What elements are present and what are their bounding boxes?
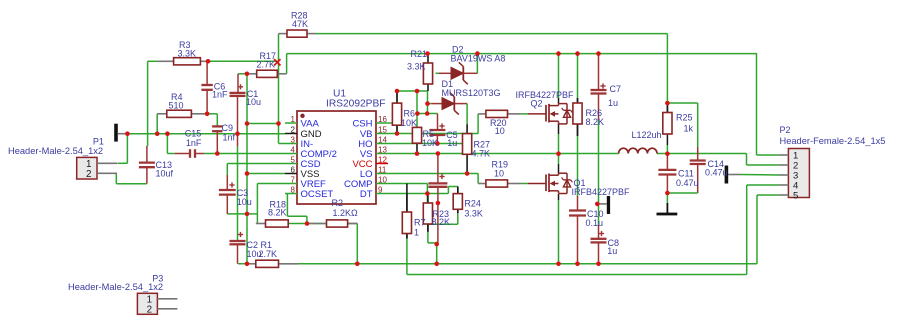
wire C1-C2 column bbox=[237, 146, 239, 241]
wire R24 bottom jog bbox=[457, 209, 459, 213]
svg-text:3.3K: 3.3K bbox=[178, 49, 197, 59]
svg-text:3.3K: 3.3K bbox=[464, 208, 483, 218]
wire C8 bottom lead bbox=[598, 242, 600, 263]
wire Q1 source drop bbox=[558, 194, 560, 200]
svg-text:7: 7 bbox=[291, 175, 296, 184]
svg-text:10uf: 10uf bbox=[156, 169, 174, 179]
svg-text:CSH: CSH bbox=[352, 119, 372, 130]
svg-text:12: 12 bbox=[378, 155, 387, 164]
pin 2 U1 left bbox=[285, 133, 297, 135]
svg-text:2: 2 bbox=[86, 169, 91, 180]
wire Q1 drain riser bbox=[558, 154, 560, 165]
wire CSD row to C3 bbox=[227, 163, 285, 165]
pin 4 U1 left bbox=[285, 153, 297, 155]
svg-text:13: 13 bbox=[378, 145, 387, 154]
wire VB to R20 riser bbox=[477, 114, 479, 134]
svg-text:10: 10 bbox=[494, 169, 504, 179]
svg-text:4: 4 bbox=[291, 145, 296, 154]
wire C3 jog bbox=[227, 213, 247, 215]
transistor Q1 bbox=[545, 175, 547, 192]
wire R26 bottom / C10 col bbox=[577, 124, 579, 136]
wire C1 branch bbox=[238, 73, 247, 75]
svg-text:R25: R25 bbox=[676, 113, 693, 123]
svg-text:0.1u: 0.1u bbox=[586, 218, 604, 228]
svg-text:10u: 10u bbox=[237, 197, 252, 207]
wire R2 right drop bbox=[348, 223, 358, 225]
svg-text:DT: DT bbox=[360, 189, 373, 200]
svg-text:R24: R24 bbox=[464, 199, 481, 209]
capacitor C15 bbox=[189, 149, 191, 158]
svg-text:1nf: 1nf bbox=[223, 133, 236, 143]
wire C4 column bbox=[437, 154, 439, 184]
wire C14 bottom jog bbox=[697, 164, 699, 193]
svg-text:2.7K: 2.7K bbox=[257, 60, 276, 70]
capacitor C6 bbox=[201, 84, 212, 86]
pin 5 U1 left bbox=[285, 163, 297, 165]
wire VREF column bbox=[257, 183, 285, 185]
pin 7 U1 left bbox=[285, 183, 297, 185]
svg-text:3.3K: 3.3K bbox=[407, 61, 426, 71]
svg-text:4.7K: 4.7K bbox=[472, 149, 491, 159]
pin 10 U1 right bbox=[376, 183, 388, 185]
svg-text:8: 8 bbox=[291, 185, 296, 194]
wire R24 top lead bbox=[457, 187, 459, 194]
wire C11 top lead bbox=[666, 154, 668, 170]
capacitor C1 bbox=[230, 92, 246, 94]
pin 15 U1 right bbox=[376, 133, 388, 135]
capacitor C9 bbox=[212, 125, 222, 127]
wire R4 left column bbox=[156, 114, 158, 134]
wire P2 pin1 net bbox=[756, 54, 758, 155]
wire DT jog to R24 bbox=[447, 187, 449, 194]
wire R25 leads bbox=[666, 103, 668, 113]
svg-text:510: 510 bbox=[169, 101, 184, 111]
svg-text:IRFB4227PBF: IRFB4227PBF bbox=[516, 90, 575, 100]
resistor R25 bbox=[666, 103, 668, 113]
wire VB row bbox=[388, 133, 478, 135]
svg-text:0.47u: 0.47u bbox=[676, 178, 699, 188]
pin 8 U1 left bbox=[285, 193, 297, 195]
wire ground stem bbox=[666, 193, 668, 204]
svg-text:10: 10 bbox=[378, 175, 387, 184]
svg-text:L122uh: L122uh bbox=[632, 130, 662, 140]
connector P3 bbox=[137, 293, 157, 314]
probe bar near C14 bbox=[725, 166, 729, 184]
wire R4-C9 branch bbox=[207, 113, 217, 115]
svg-text:10K: 10K bbox=[422, 138, 438, 148]
resistor R3 bbox=[158, 60, 174, 62]
wire R18 right / R2 left bbox=[288, 223, 326, 225]
wire D2 anode stub bbox=[436, 72, 440, 74]
wire COMP row bbox=[388, 183, 424, 185]
wire R6 column bbox=[396, 91, 398, 103]
svg-text:C11: C11 bbox=[678, 169, 694, 179]
svg-text:5: 5 bbox=[793, 191, 798, 202]
svg-text:Header-Male-2.54_1x2: Header-Male-2.54_1x2 bbox=[68, 282, 163, 292]
wire C11 bottom lead bbox=[666, 175, 668, 194]
svg-text:3: 3 bbox=[291, 135, 296, 144]
connector P1 bbox=[77, 157, 97, 179]
resistor R2 bbox=[307, 223, 327, 225]
wire R7 top bbox=[406, 184, 408, 213]
wire C5 top lead bbox=[437, 114, 439, 130]
resistor R20 bbox=[478, 113, 486, 115]
pin 14 U1 right bbox=[376, 143, 388, 145]
capacitor C7 bbox=[591, 89, 607, 91]
svg-text:2: 2 bbox=[147, 305, 152, 316]
wire jog y113.5 bbox=[417, 113, 438, 115]
svg-text:16: 16 bbox=[378, 115, 387, 124]
wire Q2 source drop bbox=[558, 124, 560, 134]
svg-text:2.7K: 2.7K bbox=[259, 249, 278, 259]
svg-text:8.2K: 8.2K bbox=[586, 117, 605, 127]
wire P2 pin4 net bbox=[747, 184, 779, 186]
diode D1 bbox=[442, 98, 454, 110]
resistor R23 bbox=[427, 194, 429, 204]
wire R23 top bbox=[426, 184, 428, 204]
svg-text:Header-Female-2.54_1x5: Header-Female-2.54_1x5 bbox=[780, 136, 886, 146]
wire LO to R19 riser bbox=[477, 174, 479, 184]
probe bar near C8 bbox=[607, 196, 610, 214]
svg-text:P2: P2 bbox=[780, 125, 791, 135]
wire P1 pin1 riser bbox=[117, 162, 127, 164]
wire C2 bottom bbox=[237, 244, 239, 263]
wire P2 pin2 net bbox=[746, 154, 748, 166]
pin 13 U1 right bbox=[376, 153, 388, 155]
op-amp U1 IRS2092PBF body bbox=[297, 111, 376, 204]
inductor L1 bbox=[619, 148, 657, 153]
connector P2 bbox=[788, 149, 809, 198]
svg-text:14: 14 bbox=[378, 135, 387, 144]
svg-text:2: 2 bbox=[291, 125, 296, 134]
wire C8 top lead bbox=[598, 203, 600, 225]
capacitor C5 bbox=[429, 129, 445, 131]
svg-text:1: 1 bbox=[291, 115, 296, 124]
svg-text:IRS2092PBF: IRS2092PBF bbox=[326, 98, 385, 109]
svg-text:8.2K: 8.2K bbox=[432, 217, 451, 227]
wire C1 bottom lead bbox=[237, 96, 239, 146]
resistor R17 bbox=[247, 73, 257, 75]
wire main column VREF net bbox=[246, 74, 248, 264]
svg-text:R6: R6 bbox=[404, 109, 416, 119]
diode D2 bbox=[451, 67, 463, 79]
wire bus1 bottom bbox=[238, 263, 757, 265]
pin 6 U1 left bbox=[285, 173, 297, 175]
svg-text:R21: R21 bbox=[411, 49, 428, 59]
wire R3 input row bbox=[148, 60, 158, 62]
wire D2 cathode riser bbox=[463, 72, 477, 74]
svg-text:0.47u: 0.47u bbox=[705, 168, 728, 178]
transistor Q2 bbox=[545, 105, 547, 122]
wire C13 column bbox=[146, 146, 148, 163]
wire R25 top net bbox=[667, 102, 697, 104]
svg-text:1u: 1u bbox=[447, 138, 457, 148]
resistor R19 bbox=[478, 183, 486, 185]
wire DT row bbox=[388, 193, 448, 195]
svg-text:1.2KΩ: 1.2KΩ bbox=[333, 208, 359, 218]
svg-text:1nF: 1nF bbox=[212, 90, 228, 100]
wire C3 bottom lead bbox=[226, 195, 228, 214]
wire R5 column bbox=[416, 91, 418, 127]
resistor R26 bbox=[577, 98, 579, 103]
wire R27 bottom bbox=[466, 154, 468, 173]
capacitor C2 bbox=[230, 240, 246, 242]
wire C6 top lead bbox=[206, 61, 208, 85]
capacitor C14 bbox=[690, 159, 706, 161]
wire P1 pin2 route bbox=[115, 173, 117, 183]
svg-text:OCSET: OCSET bbox=[301, 189, 334, 200]
wire R28 left column bbox=[278, 34, 280, 62]
capacitor C10 bbox=[569, 209, 586, 211]
resistor R28 bbox=[279, 33, 288, 35]
svg-text:IRFB4227PBF: IRFB4227PBF bbox=[572, 187, 631, 197]
svg-text:1k: 1k bbox=[684, 124, 694, 134]
wire VSS row bbox=[247, 173, 285, 175]
wire R7 bottom bbox=[406, 234, 408, 239]
capacitor C13 bbox=[139, 161, 155, 163]
svg-text:10K: 10K bbox=[401, 118, 417, 128]
wire main input row GND bbox=[118, 133, 286, 135]
capacitor C3 bbox=[219, 189, 236, 191]
svg-text:11: 11 bbox=[378, 165, 387, 174]
svg-text:C9: C9 bbox=[222, 123, 234, 133]
svg-text:R2: R2 bbox=[332, 198, 344, 208]
wire R27 top bbox=[466, 124, 468, 133]
svg-text:9: 9 bbox=[378, 185, 383, 194]
wire LO row bbox=[388, 173, 478, 175]
wire VS output row bbox=[388, 153, 619, 155]
wire row y91 bbox=[397, 90, 428, 92]
svg-text:BAV19WS A8: BAV19WS A8 bbox=[451, 54, 506, 64]
wire VCC top row y53 bbox=[287, 53, 757, 55]
svg-text:10: 10 bbox=[495, 126, 505, 136]
wire C5 bottom lead bbox=[436, 136, 438, 144]
svg-text:6: 6 bbox=[291, 165, 296, 174]
svg-text:1u: 1u bbox=[608, 98, 618, 108]
junction dots bbox=[125, 131, 130, 136]
wire R3 left column bbox=[147, 61, 149, 146]
resistor R6 bbox=[396, 91, 398, 103]
wire C9 bottom lead bbox=[216, 131, 218, 153]
resistor R18 bbox=[256, 223, 266, 225]
wire R23 bottom bbox=[427, 224, 429, 232]
wire R20 to Q2 gate bbox=[521, 113, 527, 115]
wire OCSET route bbox=[286, 194, 288, 217]
wire IN- feedback column bbox=[278, 61, 280, 143]
svg-text:15: 15 bbox=[378, 125, 387, 134]
svg-text:47K: 47K bbox=[292, 19, 308, 29]
ground bbox=[666, 203, 668, 213]
wire R21 bottom net bbox=[427, 91, 429, 114]
resistor R21 bbox=[427, 54, 429, 63]
resistor R5 bbox=[416, 126, 418, 128]
svg-text:MURS120T3G: MURS120T3G bbox=[442, 88, 501, 98]
wire C4 col green bbox=[437, 243, 438, 245]
pin 11 U1 right bbox=[376, 173, 388, 175]
svg-text:R7: R7 bbox=[414, 218, 426, 228]
svg-text:10u: 10u bbox=[246, 97, 261, 107]
wire C10 bottom bbox=[577, 216, 579, 264]
pin 16 U1 right bbox=[376, 122, 388, 124]
svg-text:1nF: 1nF bbox=[186, 138, 202, 148]
wire CSH row stub bbox=[388, 122, 394, 124]
svg-text:1u: 1u bbox=[607, 246, 617, 256]
resistor R7 bbox=[406, 194, 408, 213]
wire D1 anode row bbox=[428, 103, 432, 105]
wire R19 to Q1 gate bbox=[521, 183, 527, 185]
wire Q2 drain riser bbox=[558, 54, 560, 98]
resistor R24 bbox=[457, 187, 459, 194]
svg-text:8.2K: 8.2K bbox=[268, 208, 287, 218]
pin 1 U1 left bbox=[285, 122, 297, 124]
pin 3 U1 left bbox=[285, 143, 297, 145]
probe bar P1 input bbox=[114, 124, 118, 142]
resistor R1 bbox=[247, 263, 256, 265]
wire C6 bottom lead bbox=[206, 90, 208, 114]
wire P2 pin3 net bbox=[740, 174, 779, 177]
wire C15 row IN- bbox=[166, 134, 168, 154]
svg-text:Header-Male-2.54_1x2: Header-Male-2.54_1x2 bbox=[8, 146, 103, 156]
pin 9 U1 right bbox=[376, 193, 388, 195]
wire R26 top bbox=[577, 54, 579, 98]
marker X on R17 net bbox=[274, 59, 280, 65]
svg-text:1: 1 bbox=[414, 227, 419, 237]
wire HO row bbox=[388, 143, 463, 145]
resistor R4 bbox=[157, 113, 167, 115]
svg-text:VAA: VAA bbox=[301, 119, 320, 130]
capacitor C4 bbox=[428, 182, 447, 184]
resistor R27 bbox=[466, 133, 468, 135]
wire P2 pin5 net bbox=[757, 194, 779, 196]
wire D1 cathode bbox=[453, 103, 467, 105]
capacitor C11 bbox=[658, 169, 676, 171]
svg-text:5: 5 bbox=[291, 155, 296, 164]
wire R28 top net bbox=[316, 33, 667, 35]
capacitor C8 bbox=[591, 238, 607, 240]
pin 12 U1 right bbox=[376, 163, 388, 165]
wire C7 top lead bbox=[598, 54, 600, 90]
svg-text:C7: C7 bbox=[610, 84, 622, 94]
wire C7 bottom / C8 col bbox=[598, 94, 600, 121]
wire bus2 bottom bbox=[407, 274, 747, 276]
svg-text:Q2: Q2 bbox=[531, 99, 543, 109]
